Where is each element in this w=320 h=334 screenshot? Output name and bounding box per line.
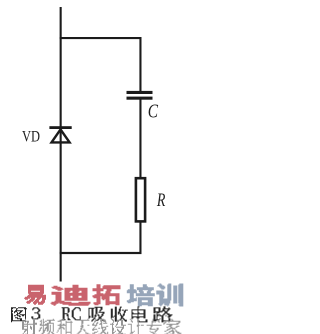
watermark logo char 5 训 (blue) <box>156 284 183 307</box>
caption char 电 <box>132 306 148 322</box>
caption char 路 <box>153 306 173 322</box>
watermark logo char 4 培 (blue) <box>127 284 155 306</box>
watermark logo char 1 易 (red) <box>24 285 46 305</box>
gray watermark char 线 <box>92 319 108 334</box>
caption char 吸 <box>89 307 106 322</box>
wire: right branch upper vertical (to capacitor) <box>139 37 141 91</box>
gray watermark char 专 <box>147 319 162 334</box>
wire: right branch lower vertical (resistor to bottom) <box>139 222 141 254</box>
gray watermark char 射 <box>22 319 37 334</box>
capacitor C bottom plate <box>127 97 153 100</box>
wire: right branch middle vertical (capacitor to resistor) <box>139 100 141 178</box>
gray watermark char 家 <box>163 319 181 334</box>
caption char 图 <box>11 307 27 322</box>
wire: left vertical bus (top terminal down to bottom terminal) <box>60 7 62 282</box>
resistor R body <box>136 178 145 221</box>
watermark logo char 3 拓 (red) <box>93 284 121 305</box>
capacitor C top plate <box>127 91 153 94</box>
gray watermark char 频 <box>39 319 55 334</box>
caption char 收 <box>111 307 128 322</box>
gray watermark char 设 <box>110 319 126 334</box>
diode VD triangle (anode, pointing up) <box>52 129 70 142</box>
caption char R <box>62 307 71 320</box>
caption char 3 <box>31 307 40 319</box>
wire: bottom branch horizontal <box>60 252 142 254</box>
gray watermark char 计 <box>128 319 144 334</box>
svg-text:R: R <box>156 189 165 210</box>
diode VD cathode bar <box>49 126 71 129</box>
watermark logo char 2 迪 (red) <box>51 285 91 306</box>
svg-text:VD: VD <box>22 128 40 146</box>
gray watermark char 和 <box>57 319 73 334</box>
caption char C <box>72 307 81 320</box>
gray watermark char 天 <box>76 319 90 334</box>
svg-text:C: C <box>148 99 159 122</box>
wire: top branch horizontal <box>60 37 142 39</box>
